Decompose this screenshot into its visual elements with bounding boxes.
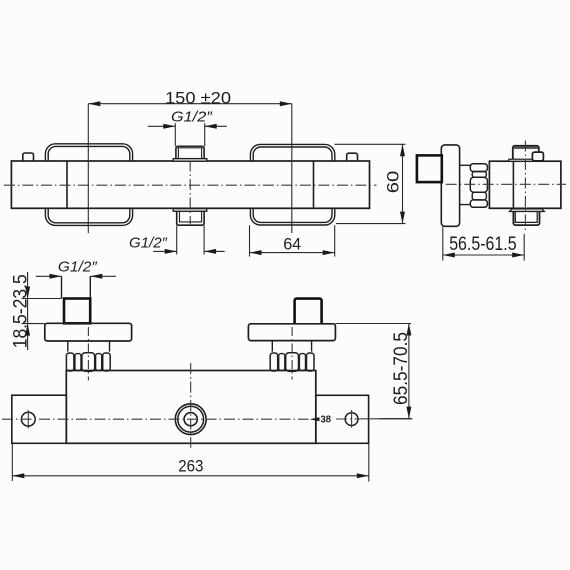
- arrow 65.5 bottom: [406, 407, 411, 419]
- dim 18.5 ext bottom: [22, 323, 45, 325]
- dim G12 front line right: [90, 275, 116, 277]
- left hex nut pill 2: [75, 354, 81, 371]
- dim 150 left extension line: [87, 104, 89, 233]
- top view horizontal centerline: [4, 184, 377, 186]
- escutcheon right outer: [250, 144, 334, 225]
- knob outer circle: [175, 404, 206, 435]
- svg-text:18.5-23.5: 18.5-23.5: [11, 274, 32, 348]
- dim G12 bottom ext right: [203, 225, 205, 254]
- small tab top-left: [23, 153, 34, 161]
- svg-text:65.5-70.5: 65.5-70.5: [391, 332, 412, 405]
- arrow 65.5 top: [406, 324, 411, 336]
- left flange: [45, 323, 132, 341]
- dim G12 top ext right: [204, 123, 206, 146]
- hex nut side band 5: [470, 200, 487, 207]
- dim G12 bottom ext left: [176, 225, 178, 254]
- hex nut side band 3: [470, 177, 487, 192]
- escutcheon right inner: [253, 147, 332, 222]
- escutcheon left outer: [45, 144, 132, 226]
- top nub body: [176, 146, 204, 158]
- hex nut side band 1: [470, 164, 487, 172]
- arrow G12front left: [50, 274, 62, 279]
- knob middle circle: [178, 406, 204, 432]
- left hex nut pill 4: [96, 354, 102, 371]
- arrow 64 left: [250, 250, 262, 255]
- top view central vertical centerline: [189, 161, 191, 227]
- arrow G12front right: [90, 274, 102, 279]
- dim 64 ext left: [249, 225, 251, 256]
- left screw hole: [21, 412, 35, 426]
- arrow 150 right: [280, 101, 292, 106]
- dim G12 bottom line right: [204, 250, 225, 252]
- dim G12 top line left: [148, 125, 175, 127]
- right hex nut pill 5: [307, 353, 315, 371]
- arrow G12top left: [163, 124, 175, 129]
- side top small box: [532, 152, 543, 161]
- left ear bracket: [12, 395, 67, 443]
- dim G12 top ext left: [174, 123, 176, 146]
- arrow 56.5 left: [443, 253, 455, 258]
- arrow G12bot right: [204, 249, 216, 254]
- dim 150 right extension line: [291, 104, 293, 233]
- side top nub dark band: [514, 147, 538, 149]
- dim 263 line: [12, 475, 369, 477]
- svg-text:56.5-61.5: 56.5-61.5: [449, 234, 516, 255]
- left hex nut pill 1: [66, 353, 74, 371]
- left assembly centerline: [87, 327, 89, 380]
- dim G12 top line right: [205, 125, 227, 127]
- right hex nut pill 1: [270, 353, 278, 371]
- front view horizontal centerline: [2, 418, 309, 420]
- side bottom nub inner lines: [515, 212, 537, 223]
- side vertical centerline: [524, 141, 526, 232]
- side horizontal centerline: [446, 183, 566, 185]
- arrow 56.5 right: [512, 253, 524, 258]
- left hex nut pill 5: [103, 353, 111, 371]
- arrow 263 right: [357, 473, 369, 478]
- bottom nub washer: [173, 209, 207, 212]
- dim 60 line: [402, 144, 404, 223]
- dim 64 line: [250, 252, 335, 254]
- top view body bar: [11, 161, 369, 208]
- dim G12 front line left: [36, 275, 62, 277]
- right hex nut pill 3: [286, 353, 299, 371]
- right hole vertical centerline: [351, 410, 353, 428]
- escutcheon left inner: [48, 146, 130, 222]
- svg-text:263: 263: [178, 457, 203, 476]
- right assembly centerline: [291, 327, 293, 380]
- arrow 60 top: [400, 144, 405, 156]
- dim 263 ext right: [368, 443, 370, 481]
- wall plate: [441, 145, 459, 226]
- bottom nub body: [177, 211, 204, 225]
- dim 60 ext bottom: [336, 223, 406, 225]
- hex nut side band 4: [472, 192, 486, 200]
- left cap separator line: [66, 161, 68, 208]
- side bottom nub washer: [510, 209, 545, 212]
- arrow 150 left: [88, 101, 100, 106]
- dim 64 ext right: [334, 225, 336, 256]
- dim 65.5 ext top: [335, 323, 411, 325]
- left hole vertical centerline: [27, 410, 29, 428]
- right screw hole: [345, 413, 358, 426]
- svg-text:64: 64: [283, 235, 301, 254]
- right neck: [272, 341, 311, 352]
- svg-text:150 ±20: 150 ±20: [165, 88, 231, 107]
- front view body bar: [66, 371, 315, 444]
- dim 56.5 ext right: [523, 234, 525, 261]
- dim 60 ext top: [335, 143, 406, 145]
- arrow G12bot left: [165, 249, 177, 254]
- arrow 263 left: [12, 473, 24, 478]
- top nub washer: [173, 159, 207, 162]
- dim 18.5-23.5 line: [27, 272, 29, 350]
- dim G12 bottom line left: [153, 250, 177, 252]
- right hex nut pill 4: [299, 354, 305, 371]
- arrow G12top right: [205, 124, 217, 129]
- side top nub inner line: [514, 147, 538, 149]
- small tab top-right: [347, 153, 358, 161]
- dim 65.5 ext bottom: [379, 418, 412, 420]
- svg-text:G1/2″: G1/2″: [129, 235, 168, 252]
- side top nub washer: [509, 159, 534, 161]
- neck between plate and nut: [460, 165, 470, 204]
- left hex nut pill 3: [82, 353, 95, 371]
- svg-text:G1/2″: G1/2″: [171, 109, 213, 126]
- top nub inner lines: [178, 148, 201, 159]
- left neck: [68, 341, 110, 352]
- side left square nub: [417, 155, 442, 182]
- right ear bracket: [316, 395, 369, 443]
- knob vertical centerline: [190, 363, 192, 448]
- right hex nut pill 2: [279, 354, 285, 371]
- knob inner circle: [184, 413, 197, 426]
- svg-text:38: 38: [321, 415, 332, 426]
- svg-text:60: 60: [384, 171, 403, 194]
- dim 150±20 line: [88, 103, 291, 105]
- body divider: [512, 161, 514, 208]
- hex nut side band 2: [472, 172, 486, 178]
- dim 65.5-70.5 line: [408, 324, 410, 419]
- left square block: [64, 299, 90, 324]
- dim 56.5 ext left: [442, 227, 444, 261]
- dim 263 ext left: [11, 443, 13, 481]
- arrow 18.5 bottom (points up): [25, 324, 30, 336]
- top nub dark band: [177, 147, 204, 149]
- bottom nub inner lines: [180, 211, 202, 222]
- dim 56.5-61.5 line: [443, 254, 524, 256]
- side top nub body: [513, 146, 539, 159]
- side bottom nub body: [513, 212, 539, 226]
- dim 18.5 ext top: [22, 298, 62, 300]
- right square block: [295, 299, 322, 324]
- arrow 60 bottom: [400, 212, 405, 224]
- arrow 18.5 top (points down): [25, 287, 30, 299]
- arrow 38 leader: [310, 417, 320, 421]
- arrow 64 right: [323, 250, 335, 255]
- right flange: [248, 324, 335, 341]
- svg-text:G1/2″: G1/2″: [58, 259, 98, 276]
- left supply pipe: [62, 276, 91, 298]
- right cap separator line: [313, 161, 315, 208]
- cartridge and body: [489, 161, 561, 208]
